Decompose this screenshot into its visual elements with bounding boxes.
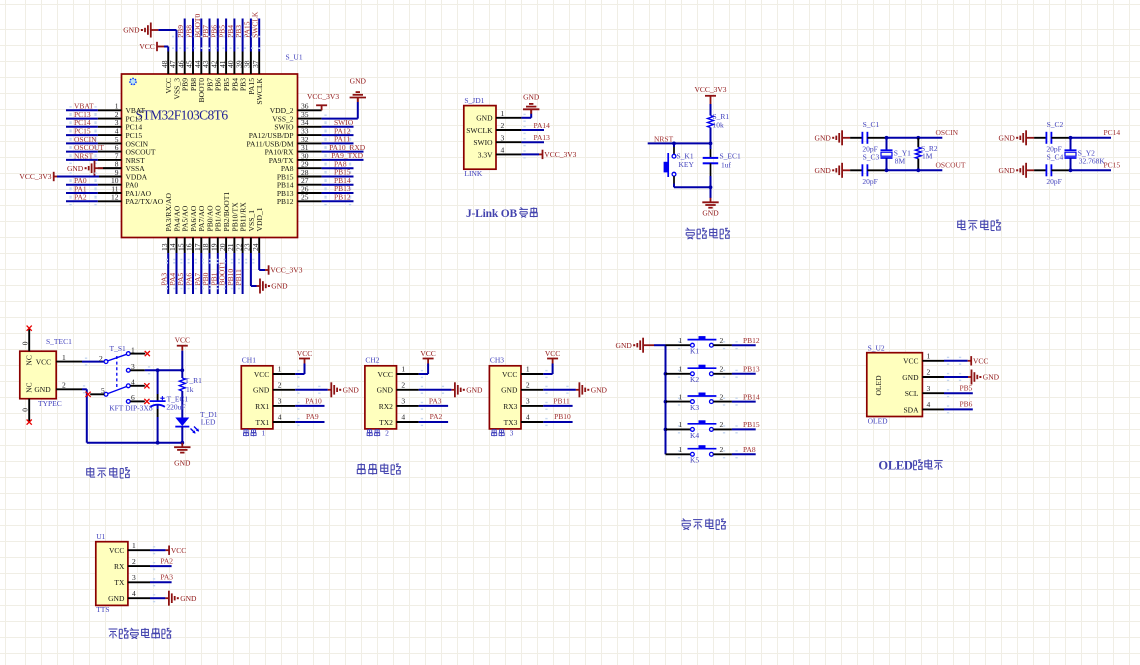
- ground GND (S_C4): [1025, 163, 1027, 178]
- pin 29 PA8 (right): [298, 167, 322, 169]
- junction top crystal: [1069, 136, 1073, 140]
- svg-text:PA2/TX/AO: PA2/TX/AO: [126, 197, 164, 206]
- wire net PA2 (TTS): [150, 565, 172, 567]
- pin 39 PB3 (top): [242, 52, 244, 75]
- pushbutton S_K1 KEY: [672, 154, 676, 158]
- switch pin 4: [130, 385, 145, 387]
- pin 4 TX3 (CH3): [521, 421, 543, 423]
- svg-text:2: 2: [720, 365, 724, 374]
- junction cap bottom: [156, 441, 160, 445]
- svg-text:GND: GND: [999, 133, 1016, 142]
- pin 3 SCL (OLED): [922, 392, 944, 394]
- wire net PA0: [66, 184, 98, 186]
- junction bottom crystal: [1069, 168, 1073, 172]
- title crystal circuit: [958, 220, 966, 230]
- wire net PA3 (TTS): [150, 581, 172, 583]
- wire net PA4: [176, 253, 178, 294]
- svg-text:2: 2: [401, 381, 405, 390]
- wire CH1 pin1 to VCC: [295, 373, 304, 375]
- part name serial port 3: [492, 429, 497, 436]
- svg-text:K4: K4: [690, 431, 699, 440]
- pin 0 NC bottom: [28, 399, 30, 422]
- wire pin 23 VSS_1 to GND: [250, 253, 252, 286]
- svg-text:GND: GND: [343, 385, 360, 394]
- svg-text:GND: GND: [501, 386, 518, 395]
- svg-text:8M: 8M: [895, 156, 906, 165]
- wire net PA12: [322, 134, 354, 136]
- svg-text:PA3: PA3: [160, 573, 173, 582]
- svg-text:4: 4: [927, 400, 931, 409]
- svg-text:2: 2: [720, 445, 724, 454]
- wire net PA9_TXD: [322, 159, 364, 161]
- wire bus to K2: [666, 373, 691, 375]
- svg-text:1: 1: [131, 346, 135, 355]
- ground GND above pin 35: [357, 98, 359, 103]
- svg-text:12: 12: [111, 193, 119, 202]
- svg-text:GND: GND: [377, 386, 394, 395]
- wire net PB4: [233, 19, 235, 52]
- svg-text:OLED: OLED: [868, 416, 889, 425]
- svg-text:32.768K: 32.768K: [1079, 156, 1106, 165]
- svg-text:GND: GND: [271, 282, 288, 291]
- pin 4 PC15 (left): [98, 134, 122, 136]
- svg-text:VCC: VCC: [297, 349, 312, 358]
- svg-text:SWCLK: SWCLK: [251, 11, 260, 38]
- pin 24 VDD_1 (bottom): [258, 238, 260, 254]
- wire net PA13: [521, 141, 544, 143]
- capacitor S_C2 20pF: [1045, 132, 1047, 144]
- power VCC (CH2): [427, 359, 429, 364]
- power VCC (CH1): [304, 359, 306, 364]
- pin 32 PA11/USB/DM (right): [298, 142, 322, 144]
- wire net PB14: [322, 184, 354, 186]
- junction R2 top: [916, 136, 920, 140]
- wire net PB8: [192, 19, 194, 52]
- svg-text:4: 4: [401, 413, 405, 422]
- title serial circuit: [357, 463, 365, 474]
- pin 6 OSCOUT (left): [98, 151, 122, 153]
- power VCC (CH3): [552, 359, 554, 364]
- wire typec VCC to switch: [82, 361, 104, 363]
- pin 48 VCC (top): [167, 52, 169, 75]
- svg-text:CH1: CH1: [242, 355, 256, 364]
- pin 15 PA5/AO (bottom): [184, 238, 186, 254]
- svg-text:PB14: PB14: [743, 392, 760, 401]
- wire bus to K1: [666, 344, 691, 346]
- capacitor T_EC1 220uF: [157, 370, 159, 394]
- wire net OSCIN: [66, 142, 98, 144]
- wire net PA9: [295, 421, 324, 423]
- svg-text:S_U2: S_U2: [868, 343, 885, 352]
- pin 38 PA15 (top): [250, 52, 252, 75]
- svg-text:2: 2: [720, 392, 724, 401]
- ground GND above J-Link pin1: [530, 110, 532, 114]
- svg-text:3: 3: [501, 133, 505, 142]
- svg-text:1: 1: [679, 365, 683, 374]
- svg-text:2: 2: [526, 381, 530, 390]
- svg-text:GND: GND: [523, 93, 540, 102]
- svg-text:STM32F103C8T6: STM32F103C8T6: [136, 108, 229, 123]
- pin 20 PB2/BOOT1 (bottom): [225, 238, 227, 254]
- wire net PA2: [66, 200, 98, 202]
- svg-text:S_C4: S_C4: [1047, 152, 1064, 161]
- pin 40 PB4 (top): [233, 52, 235, 75]
- svg-text:GND: GND: [123, 26, 140, 35]
- wire net PB5: [225, 19, 227, 52]
- wire bus to K3: [666, 401, 691, 403]
- svg-text:NC: NC: [25, 382, 34, 392]
- wire VCC down: [181, 351, 183, 378]
- pin 4 SDA (OLED): [922, 408, 944, 410]
- wire net BOOT1: [225, 253, 227, 294]
- part name serial port 1: [244, 429, 249, 436]
- pin 4 TX1 (CH1): [273, 421, 295, 423]
- svg-text:GND: GND: [983, 373, 1000, 382]
- wire top rail: [887, 137, 943, 139]
- svg-text:VCC: VCC: [545, 349, 560, 358]
- svg-text:LINK: LINK: [464, 169, 482, 178]
- wire GND to S_C1: [842, 137, 850, 139]
- wire net PB6: [217, 19, 219, 52]
- wire net BOOT0: [200, 19, 202, 52]
- svg-text:OLED: OLED: [874, 375, 883, 396]
- svg-text:NRST: NRST: [74, 151, 94, 160]
- ground GND (S_C3): [841, 163, 843, 178]
- svg-text:GND: GND: [253, 386, 270, 395]
- wire pin35 VSS_2 to GND: [322, 118, 358, 120]
- pin 45 PB8 (top): [192, 52, 194, 75]
- selection dots bottom: [166, 259, 260, 261]
- pin 26 PB13 (right): [298, 192, 322, 194]
- wire net PA11: [322, 142, 354, 144]
- svg-text:S_C1: S_C1: [863, 120, 880, 129]
- svg-text:4: 4: [278, 413, 282, 422]
- svg-text:1: 1: [132, 541, 136, 550]
- wire C1 to bottom node: [710, 163, 712, 176]
- pin 3 TX (TTS): [128, 581, 150, 583]
- wire CH1 pin2 to GND: [295, 389, 328, 391]
- svg-text:VCC_3V3: VCC_3V3: [307, 92, 339, 101]
- resistor S_R1 10k: [708, 116, 714, 128]
- pin 3 RX3 (CH3): [521, 405, 543, 407]
- svg-text:0: 0: [20, 341, 29, 345]
- wire net PA6: [192, 253, 194, 294]
- wire net PA10_RXD: [322, 151, 364, 153]
- svg-text:VCC: VCC: [36, 358, 51, 367]
- wire net PB12: [322, 200, 354, 202]
- svg-text:3: 3: [510, 429, 514, 438]
- svg-text:GND: GND: [350, 77, 367, 86]
- svg-text:J-Link OB: J-Link OB: [466, 208, 517, 220]
- svg-text:SWCLK: SWCLK: [255, 77, 264, 104]
- pin 8 VSSA (left): [98, 167, 122, 169]
- pin 34 SWIO (right): [298, 126, 322, 128]
- wire net VBAT: [66, 109, 98, 111]
- title voice output module: [109, 629, 118, 638]
- wire net PB15: [322, 176, 354, 178]
- wire key to bottom node: [673, 176, 675, 183]
- svg-text:220uF: 220uF: [166, 402, 185, 411]
- svg-text:NRST: NRST: [654, 135, 674, 144]
- pin 42 PB6 (top): [217, 52, 219, 75]
- svg-text:3: 3: [401, 397, 405, 406]
- pin 4 GND (TTS): [128, 597, 150, 599]
- pin 2 GND typec: [56, 388, 82, 390]
- svg-text:CH2: CH2: [365, 355, 379, 364]
- pin 13 PA3/RX/AO (bottom): [167, 238, 169, 254]
- svg-text:GND: GND: [591, 385, 608, 394]
- svg-text:PA8: PA8: [743, 445, 756, 454]
- wire S_C2 to node: [1051, 137, 1070, 139]
- junction bottom node: [709, 185, 713, 189]
- svg-text:VCC: VCC: [903, 357, 918, 366]
- ground GND key circuit: [642, 338, 644, 353]
- svg-text:2: 2: [720, 336, 724, 345]
- svg-text:1: 1: [679, 445, 683, 454]
- svg-text:4: 4: [131, 378, 135, 387]
- svg-text:2: 2: [278, 381, 282, 390]
- svg-text:2: 2: [927, 368, 931, 377]
- ground GND (TTS): [168, 591, 170, 606]
- wire net PA7: [200, 253, 202, 294]
- connector S_TEC1 TYPEC body: [20, 351, 56, 399]
- pin 1 VCC (CH2): [397, 373, 419, 375]
- svg-text:RX3: RX3: [503, 402, 517, 411]
- svg-text:S_C2: S_C2: [1047, 120, 1064, 129]
- svg-text:1: 1: [526, 365, 530, 374]
- svg-text:PB12: PB12: [277, 197, 294, 206]
- svg-text:GND: GND: [180, 594, 197, 603]
- part name serial port 2: [367, 429, 372, 436]
- svg-text:PB11: PB11: [234, 269, 243, 286]
- svg-text:K5: K5: [690, 456, 699, 465]
- svg-text:1: 1: [679, 420, 683, 429]
- pin 35 VSS_2 (right): [298, 118, 322, 120]
- wire node to key: [673, 143, 675, 147]
- pin 2 PC13 (left): [98, 118, 122, 120]
- ground GND (CH3): [578, 382, 580, 397]
- wire net PB7: [209, 19, 211, 52]
- svg-text:RX2: RX2: [379, 402, 393, 411]
- svg-text:6: 6: [131, 393, 135, 402]
- wire net PB0: [209, 253, 211, 294]
- wire R1 to NRST node: [710, 128, 712, 144]
- pin 7 NRST (left): [98, 159, 122, 161]
- svg-text:37: 37: [251, 60, 260, 68]
- wire OLED pin2 to GND: [944, 376, 968, 378]
- svg-text:GND: GND: [34, 385, 51, 394]
- wire net PB11: [242, 253, 244, 294]
- pin 4 TX2 (CH2): [397, 421, 419, 423]
- svg-text:T_R1: T_R1: [185, 376, 202, 385]
- wire GND to S_C3: [842, 169, 850, 171]
- svg-text:VCC_3V3: VCC_3V3: [694, 85, 726, 94]
- pin 2 RX (TTS): [128, 565, 150, 567]
- pin 46 PB9 (top): [184, 52, 186, 75]
- connector CH3 body: [489, 366, 521, 429]
- bottom rail wire: [87, 442, 183, 444]
- key bus vertical wire: [665, 345, 667, 454]
- svg-text:TX2: TX2: [379, 418, 393, 427]
- wire net PB6: [944, 408, 973, 410]
- pin 3 RX2 (CH2): [397, 405, 419, 407]
- wire CH2 pin1 to VCC: [419, 373, 428, 375]
- power VCC_3V3 below MCU: [265, 269, 269, 271]
- svg-text:VCC: VCC: [171, 546, 186, 555]
- svg-text:VCC: VCC: [254, 370, 269, 379]
- wire CH2 pin2 to GND: [419, 389, 452, 391]
- capacitor S_C1 20pF: [861, 132, 863, 144]
- svg-text:PB15: PB15: [743, 420, 760, 429]
- wire net PC15: [66, 134, 98, 136]
- switch pin 3: [130, 369, 145, 371]
- svg-text:VCC: VCC: [502, 370, 517, 379]
- svg-text:1k: 1k: [186, 385, 194, 394]
- svg-text:VCC_3V3: VCC_3V3: [19, 172, 51, 181]
- wire net PB3: [242, 19, 244, 52]
- svg-text:S_U1: S_U1: [286, 53, 303, 62]
- resistor T_R1 1k: [179, 378, 185, 391]
- resistor S_R2 1M: [917, 138, 919, 148]
- wire S_C1 to node: [867, 137, 886, 139]
- wire TTS pin1 to VCC: [150, 549, 166, 551]
- svg-text:TX3: TX3: [504, 418, 518, 427]
- connector CH1 body: [241, 366, 273, 429]
- wire net PA15: [250, 19, 252, 52]
- pin 1 VCC typec: [56, 361, 82, 363]
- svg-text:VCC: VCC: [973, 357, 988, 366]
- wire CH3 pin1 to VCC: [543, 373, 552, 375]
- svg-text:VCC_3V3: VCC_3V3: [544, 150, 576, 159]
- wire bus to K4: [666, 428, 691, 430]
- pin 4 3.3V (J-Link): [496, 153, 521, 155]
- svg-text:2: 2: [720, 420, 724, 429]
- junction key bus K2: [664, 372, 668, 376]
- svg-text:GND: GND: [616, 341, 633, 350]
- svg-text:3.3V: 3.3V: [478, 150, 493, 159]
- ground GND at pin 47 VSS_3: [176, 30, 178, 52]
- power VCC (OLED): [970, 356, 972, 365]
- svg-text:1: 1: [278, 365, 282, 374]
- wire net PA1: [66, 192, 98, 194]
- svg-text:TX1: TX1: [256, 418, 270, 427]
- svg-text:4: 4: [132, 589, 136, 598]
- svg-text:VCC_3V3: VCC_3V3: [270, 266, 302, 275]
- title power circuit: [87, 467, 95, 477]
- wire net PA10: [295, 405, 324, 407]
- pin 22 PB11/RX (bottom): [242, 238, 244, 254]
- svg-text:4: 4: [501, 146, 505, 155]
- junction cap branch: [156, 368, 160, 372]
- svg-text:PA3: PA3: [429, 396, 442, 405]
- svg-text:20pF: 20pF: [862, 177, 877, 186]
- svg-text:PA2: PA2: [160, 557, 173, 566]
- LED T_D1: [175, 418, 189, 427]
- svg-text:2: 2: [62, 381, 66, 390]
- svg-text:1M: 1M: [922, 151, 933, 160]
- svg-text:3: 3: [278, 397, 282, 406]
- ground GND (CH1): [330, 382, 332, 397]
- junction led bottom: [180, 441, 184, 445]
- svg-text:PB12: PB12: [743, 336, 760, 345]
- pin 2 GND (CH2): [397, 389, 419, 391]
- svg-text:PB5: PB5: [960, 383, 973, 392]
- svg-text:25: 25: [301, 193, 309, 202]
- pin 37 SWCLK (top): [258, 52, 260, 75]
- title reset circuit: [685, 228, 695, 239]
- svg-text:PB11: PB11: [553, 396, 570, 405]
- pin 1 VCC (CH1): [273, 373, 295, 375]
- selection dots top: [172, 36, 262, 38]
- wire OLED pin1 to VCC: [944, 360, 968, 362]
- module U1 TTS body: [96, 542, 128, 606]
- svg-text:GND: GND: [174, 459, 191, 468]
- svg-text:2: 2: [385, 429, 389, 438]
- wire net PA5: [184, 253, 186, 294]
- connector S_JD1 LINK body: [464, 106, 496, 170]
- power VCC_3V3 at pin 36 VDD_2: [321, 105, 323, 110]
- svg-text:4: 4: [526, 413, 530, 422]
- svg-text:PA2: PA2: [74, 193, 87, 202]
- junction bottom crystal: [885, 168, 889, 172]
- svg-text:PA2: PA2: [430, 412, 443, 421]
- svg-text:3: 3: [132, 573, 136, 582]
- svg-text:GND: GND: [108, 594, 125, 603]
- svg-text:GND: GND: [67, 164, 84, 173]
- svg-text:GND: GND: [815, 133, 832, 142]
- svg-text:KEY: KEY: [679, 160, 695, 169]
- pin 25 PB12 (right): [298, 200, 322, 202]
- pin 17 PA7/AO (bottom): [200, 238, 202, 254]
- wire pin1 to GND: [521, 117, 531, 119]
- svg-text:3: 3: [526, 397, 530, 406]
- pin 2 GND (CH3): [521, 389, 543, 391]
- svg-text:SCL: SCL: [905, 389, 919, 398]
- svg-text:1: 1: [62, 353, 66, 362]
- svg-text:SWCLK: SWCLK: [466, 126, 493, 135]
- wire net PA8: [322, 167, 354, 169]
- pin 12 PA2/TX/AO (left): [98, 200, 122, 202]
- svg-text:0: 0: [20, 408, 29, 412]
- svg-text:24: 24: [251, 243, 260, 251]
- pin 1 VCC (OLED): [922, 360, 944, 362]
- pin 33 PA12/USB/DP (right): [298, 134, 322, 136]
- junction key bus K4: [664, 428, 668, 432]
- svg-text:GND: GND: [702, 208, 719, 217]
- pin 36 VDD_2 (right): [298, 109, 322, 111]
- wire switch pin3 to caps: [145, 369, 183, 371]
- svg-text:1: 1: [927, 352, 931, 361]
- wire S_C3 to node: [867, 169, 886, 171]
- switch pin 6: [130, 400, 145, 402]
- svg-text:VCC: VCC: [175, 336, 190, 345]
- pin 14 PA4/AO (bottom): [176, 238, 178, 254]
- pin 2 SWCLK (J-Link): [496, 129, 521, 131]
- ground at pin 8 VSSA: [103, 167, 122, 169]
- pin 3 RX1 (CH1): [273, 405, 295, 407]
- crystal S_Y1: [886, 138, 888, 150]
- svg-text:K2: K2: [690, 375, 699, 384]
- svg-text:SWIO: SWIO: [473, 138, 493, 147]
- svg-text:PA9: PA9: [306, 412, 319, 421]
- svg-text:PB13: PB13: [743, 365, 760, 374]
- svg-text:SDA: SDA: [903, 405, 919, 414]
- capacitor S_C4 20pF: [1045, 164, 1047, 176]
- svg-text:GND: GND: [466, 385, 483, 394]
- svg-text:10k: 10k: [713, 121, 725, 130]
- wire VCC_3V3 to R1: [710, 104, 712, 116]
- svg-text:KFT DIP-3X8: KFT DIP-3X8: [109, 404, 153, 413]
